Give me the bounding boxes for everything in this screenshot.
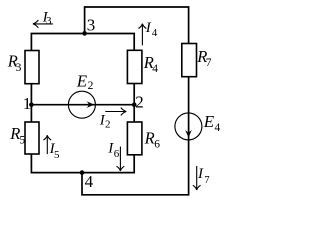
label E2 [76, 72, 94, 92]
source E2 arrowhead [86, 101, 94, 108]
svg-text:3: 3 [87, 16, 96, 35]
svg-text:3: 3 [46, 15, 52, 27]
svg-text:4: 4 [152, 27, 158, 39]
wire R4 bottom to R6 top through node 2 [133, 84, 135, 123]
svg-text:6: 6 [154, 138, 160, 150]
source E4 arrowhead [185, 130, 192, 138]
label R6 [144, 128, 161, 150]
svg-text:6: 6 [114, 148, 120, 160]
wire node4 drop, bottom rail, right riser through E4 to R7 bottom [82, 77, 189, 195]
node 1 junction dot [29, 102, 34, 107]
resistor R6 [127, 122, 141, 155]
svg-text:1: 1 [23, 94, 32, 113]
label I5 [49, 141, 60, 161]
wire second rail: R3 top riser, rail y=33.5, riser down to R4 [31, 34, 134, 52]
node 4 junction dot [80, 170, 85, 175]
label I6 [107, 141, 120, 161]
svg-text:4: 4 [152, 63, 158, 75]
wire middle rail node1 to node2 [31, 104, 134, 106]
svg-text:2: 2 [135, 92, 144, 111]
current arrow I7 (points down) [193, 166, 201, 190]
resistor R3 [25, 51, 39, 84]
source E2 circle [68, 91, 95, 118]
svg-text:4: 4 [85, 172, 94, 191]
svg-text:I: I [197, 166, 204, 182]
label R4 [143, 53, 159, 75]
label R7 [196, 47, 212, 69]
current arrow I6 (points down) [117, 147, 125, 172]
label R3 [7, 51, 22, 74]
svg-text:2: 2 [88, 80, 94, 92]
wire R5 bottom, corner, lower-left rail to R6 bottom riser [31, 154, 134, 173]
resistor R4 [127, 50, 141, 83]
svg-text:3: 3 [16, 62, 22, 74]
svg-text:R: R [144, 128, 155, 147]
label R5 [9, 124, 25, 146]
svg-text:5: 5 [19, 134, 25, 146]
current arrow I4 (points up) [139, 24, 147, 46]
label I2 [99, 112, 111, 130]
node 2 junction dot [132, 102, 137, 107]
wire R3 bottom to R5 top through node 1 [30, 84, 32, 123]
svg-text:2: 2 [105, 119, 111, 131]
resistor R5 [25, 122, 39, 154]
svg-text:E: E [203, 112, 215, 131]
label I7 [197, 166, 210, 186]
label I4 [145, 20, 158, 39]
svg-text:5: 5 [54, 149, 60, 161]
label E4 [203, 112, 221, 134]
resistor R7 [182, 44, 197, 77]
source E4 circle [175, 113, 202, 140]
current arrow I5 (points up) [43, 135, 51, 154]
label I3 [42, 9, 52, 27]
svg-text:E: E [76, 72, 88, 91]
wire top: node3 riser, top rail, right riser to R7 [85, 7, 189, 44]
current arrow I2 (points right) [105, 108, 126, 116]
svg-text:4: 4 [215, 122, 221, 134]
current arrow I3 (points left) [33, 20, 53, 28]
svg-text:7: 7 [206, 57, 212, 69]
svg-text:7: 7 [204, 175, 209, 186]
node 3 junction dot [82, 31, 87, 36]
